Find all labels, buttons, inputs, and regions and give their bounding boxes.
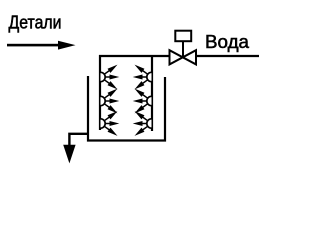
drain pipe [69, 134, 88, 146]
nozzle N3 (left pipe, bottom) [101, 109, 120, 138]
drain arrowhead [63, 145, 75, 164]
parts inlet arrowhead [58, 41, 76, 50]
nozzle N6 (right pipe, bottom) [133, 109, 152, 138]
nozzle N1 (left pipe, top) [101, 63, 120, 92]
nozzle N2 (left pipe, middle) [101, 87, 120, 116]
nozzle N5 (right pipe, middle) [133, 87, 152, 116]
valve V1 body (bowtie) [170, 50, 197, 64]
svg-text:Детали: Детали [9, 12, 62, 32]
parts inlet arrow shaft [7, 44, 59, 47]
water pipe right segment (valve to edge) [196, 55, 259, 57]
water pipe left segment (chamber top to valve) [99, 55, 170, 57]
spray chamber right wall / right spray pipe [151, 55, 153, 131]
nozzle N4 (right pipe, top) [133, 63, 152, 92]
valve stem [182, 41, 184, 57]
valve actuator box [175, 31, 191, 42]
tank outer wall (left, bottom, right) [88, 76, 165, 141]
svg-text:Вода: Вода [205, 32, 250, 52]
spray chamber left wall / left spray pipe [99, 55, 101, 130]
